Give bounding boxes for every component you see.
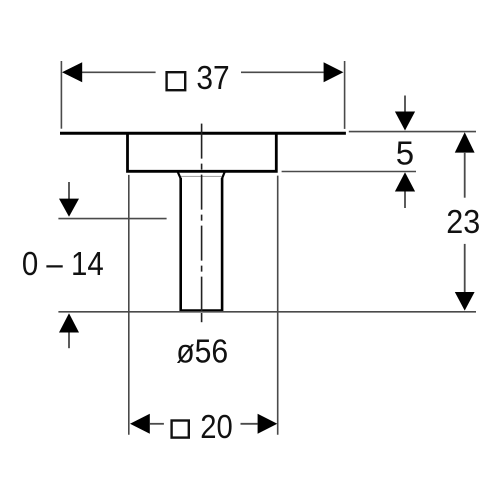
body bottom reference line (right) xyxy=(282,171,416,173)
dim 23: upper arrowhead (up) xyxy=(455,132,475,152)
dim 20: right arrowhead xyxy=(258,414,278,434)
svg-text:37: 37 xyxy=(196,59,229,96)
dim 0-14: lower arrow stem xyxy=(68,333,70,349)
dim 20: dimension line right stub xyxy=(241,423,258,425)
dim 37: left arrowhead xyxy=(62,62,82,82)
dim 20: left arrowhead xyxy=(130,414,150,434)
dim 0-14: upper reference line xyxy=(58,218,166,220)
bottom reference line xyxy=(58,311,476,313)
svg-text:23: 23 xyxy=(446,203,480,240)
svg-text:5: 5 xyxy=(396,135,414,172)
dim 23: upper line segment xyxy=(464,152,466,198)
stem outlet pipe xyxy=(179,178,223,311)
dim 0-14: upper arrow stem xyxy=(68,182,70,199)
dim 20: square symbol xyxy=(172,421,189,438)
dim 37: square symbol xyxy=(167,72,186,90)
dim 20: dimension line left stub xyxy=(150,423,164,425)
dim 37: dimension line right segment xyxy=(241,71,324,73)
dim 37: right arrowhead xyxy=(324,62,344,82)
body (square housing below flange) xyxy=(128,133,277,171)
stem flare right chamfer xyxy=(222,172,225,179)
dim 5: lower arrowhead (up) xyxy=(395,172,415,191)
centerline bottom stub xyxy=(201,313,203,322)
dim 5: upper arrowhead (down) xyxy=(395,112,415,131)
dim 23: lower line segment xyxy=(464,244,466,293)
svg-text:20: 20 xyxy=(200,408,233,445)
dim 5: upper arrow stem xyxy=(404,96,406,113)
dim 37: left extension line xyxy=(60,61,62,129)
svg-text:ø56: ø56 xyxy=(176,333,228,370)
dim 37: right extension line xyxy=(344,61,346,129)
dim 23: lower arrowhead (down) xyxy=(455,292,475,311)
dim 5: lower arrow stem xyxy=(404,192,406,209)
dim 20: left extension line xyxy=(128,175,130,435)
flange top reference line (right) xyxy=(349,131,476,133)
svg-text:0 – 14: 0 – 14 xyxy=(22,245,104,282)
dim 37: dimension line left segment xyxy=(82,71,156,73)
flange plate (top wide plate of fixture) xyxy=(60,132,346,135)
stem faint shoulder line xyxy=(181,175,222,177)
stem flare left chamfer xyxy=(178,172,181,179)
dim 20: right extension line xyxy=(277,176,279,435)
centerline xyxy=(201,124,203,311)
dim 0-14: upper arrowhead (down) xyxy=(59,199,79,217)
dim 0-14: lower arrowhead (up) xyxy=(59,313,79,332)
